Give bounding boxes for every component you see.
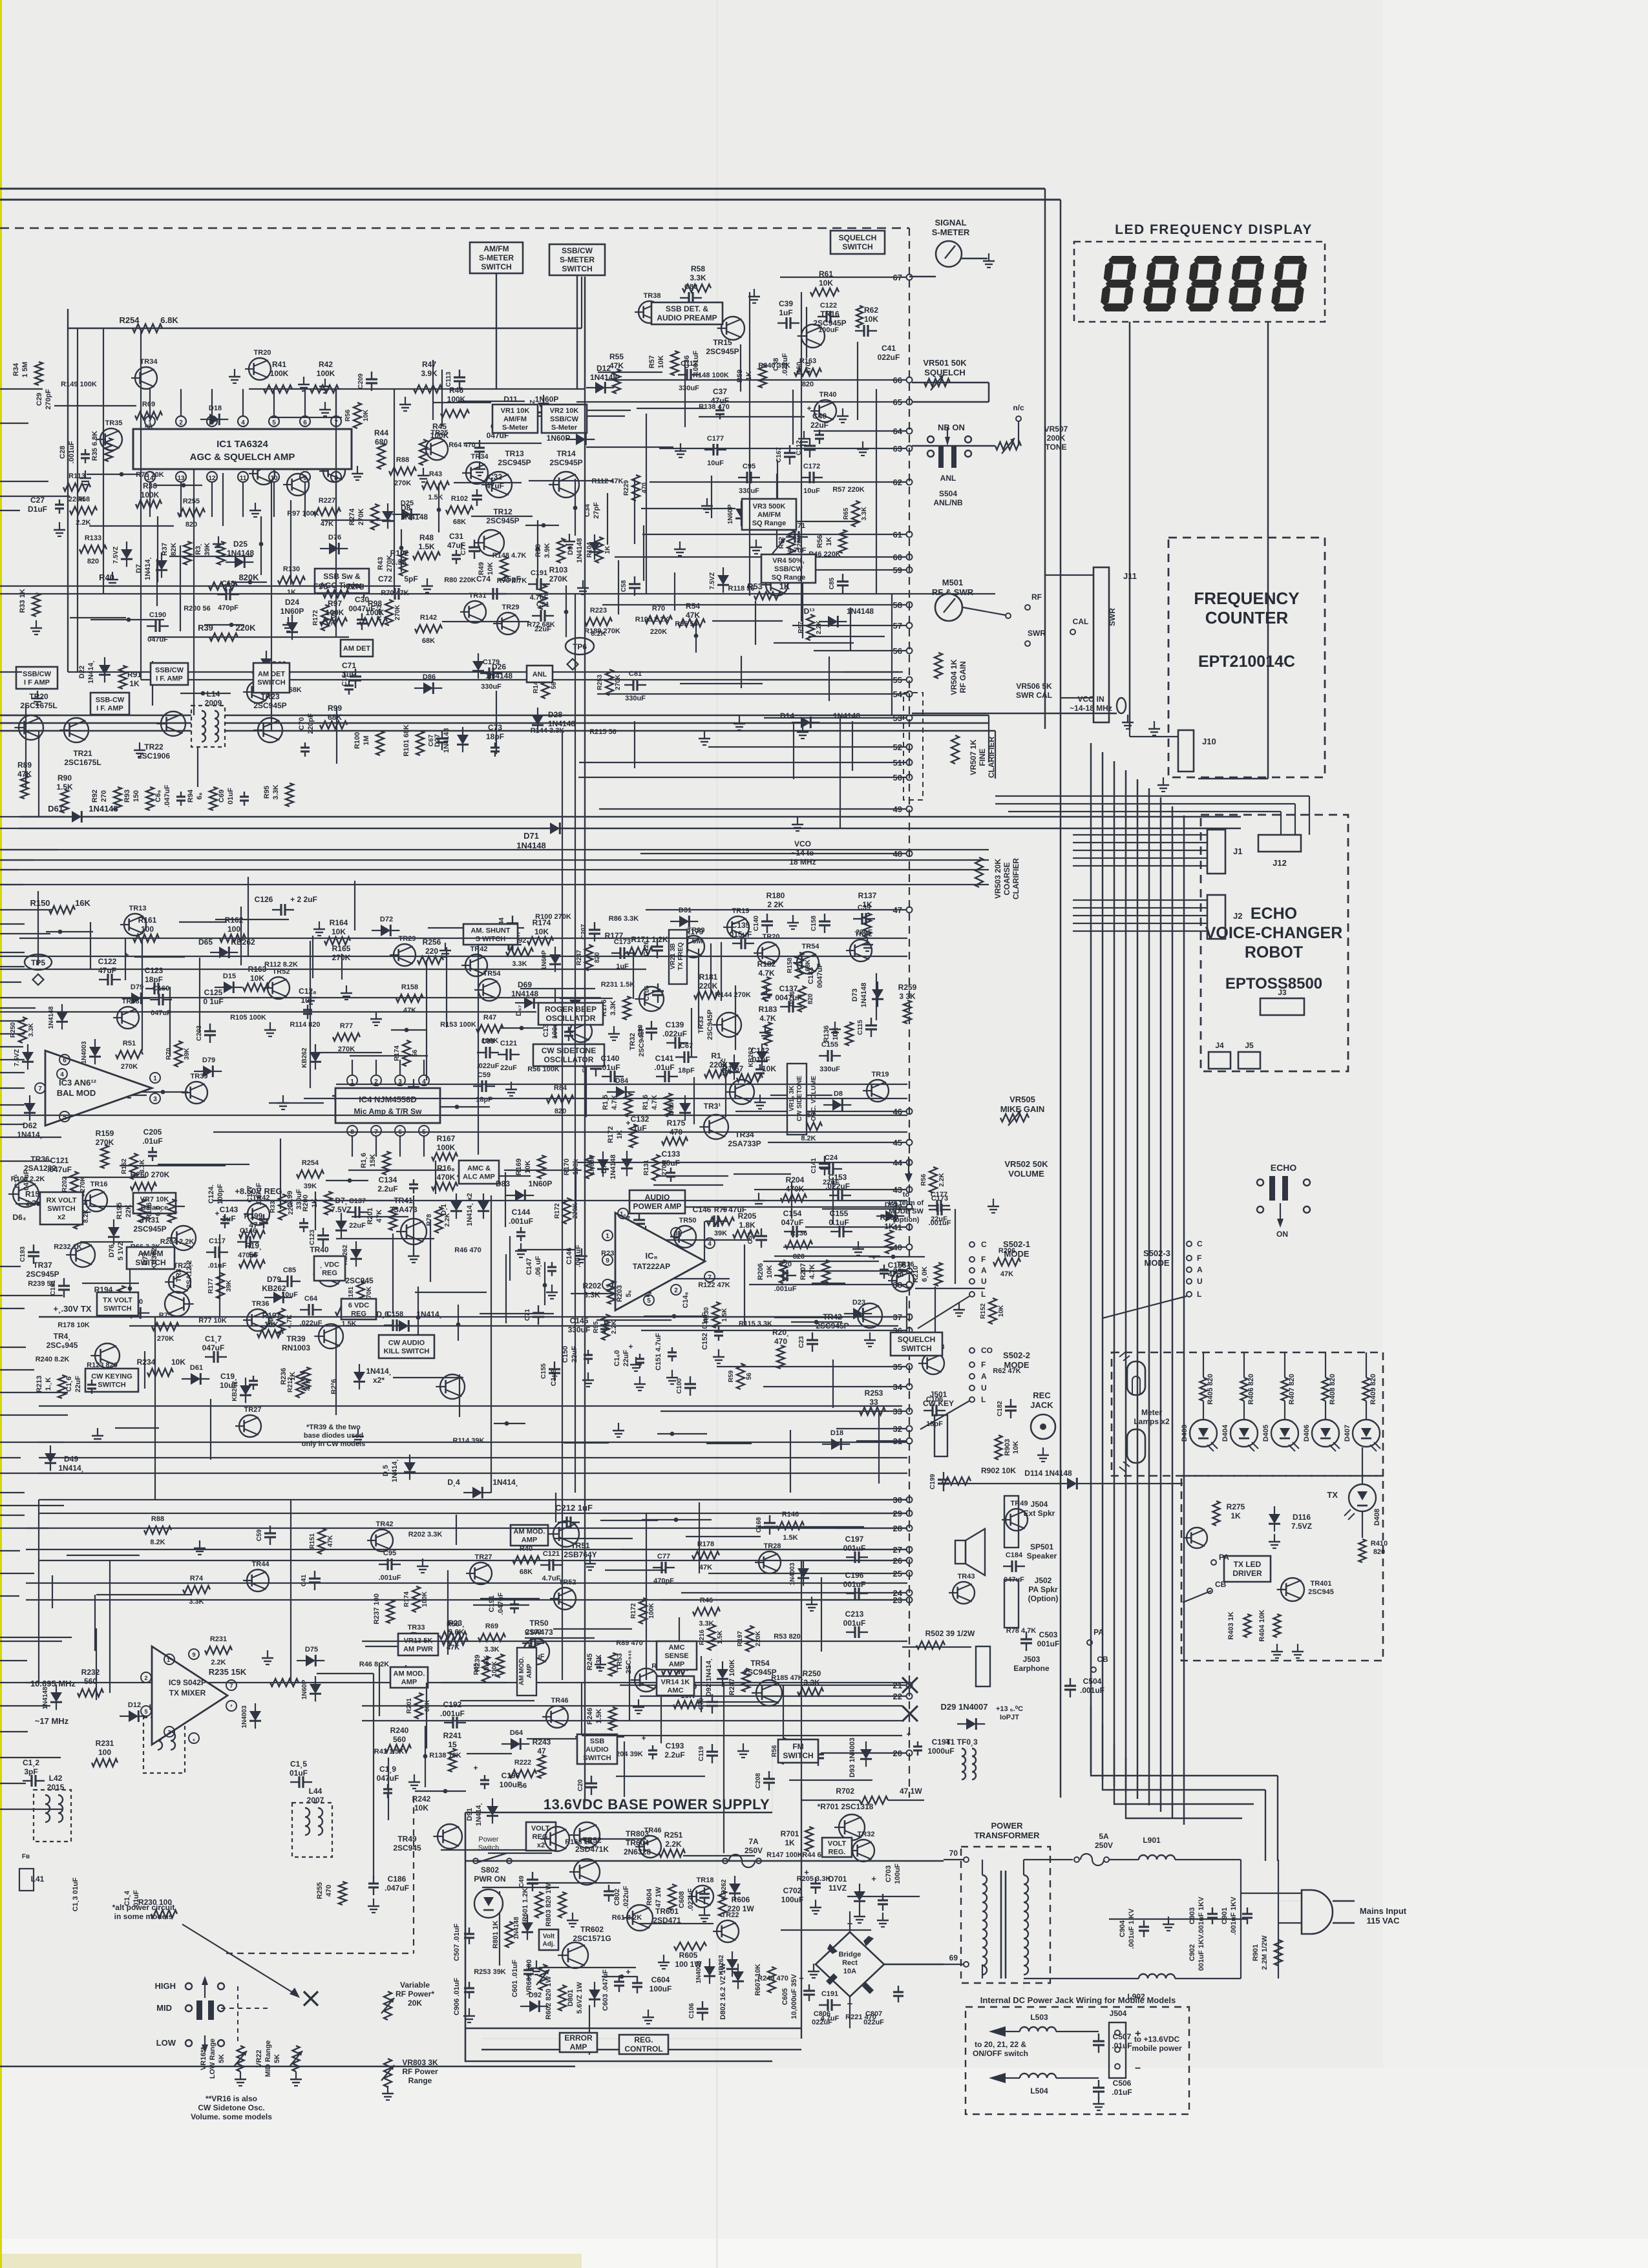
svg-text:100K: 100K (437, 1143, 456, 1152)
svg-text:3.3K: 3.3K (272, 784, 280, 799)
VR21B TX FREQ box (669, 930, 687, 984)
connector pin 22 (907, 1694, 913, 1699)
svg-text:J504: J504 (1110, 2009, 1127, 2018)
svg-text:AM/FM: AM/FM (483, 244, 509, 253)
svg-text:R41: R41 (272, 360, 286, 369)
svg-text:R172: R172 (554, 1203, 561, 1219)
connector pin 66 (907, 377, 913, 383)
svg-text:**VR16 is also: **VR16 is also (206, 2094, 257, 2103)
svg-text:C193: C193 (19, 1246, 26, 1262)
svg-text:LOW: LOW (156, 2038, 176, 2048)
svg-text:001uF: 001uF (1037, 1639, 1060, 1648)
svg-text:250V: 250V (745, 1846, 763, 1855)
svg-text:CW SIDETONE: CW SIDETONE (542, 1046, 596, 1055)
wire vertical drop from bus B (1060, 200, 1062, 1798)
AM DET SWITCH box (253, 663, 290, 693)
svg-text:TR16: TR16 (90, 1181, 108, 1188)
svg-text:22uF: 22uF (931, 1215, 947, 1223)
svg-text:T1 TF0¸3: T1 TF0¸3 (945, 1738, 978, 1747)
svg-text:C155: C155 (540, 1363, 547, 1379)
svg-text:VR4 50%,: VR4 50%, (772, 557, 805, 565)
svg-text:JACK: JACK (1030, 1400, 1053, 1410)
svg-text:10A: 10A (843, 1968, 856, 1975)
svg-text:100K: 100K (317, 369, 335, 378)
svg-text:ERROR: ERROR (564, 2033, 593, 2042)
svg-text:TR20: TR20 (29, 692, 48, 701)
svg-text:+: + (473, 1763, 478, 1772)
svg-text:70: 70 (949, 1849, 958, 1858)
svg-text:Ext Spkr: Ext Spkr (1024, 1509, 1055, 1518)
svg-text:560: 560 (393, 1735, 406, 1744)
TX LED DRIVER box (1224, 1556, 1271, 1582)
svg-text:.022uF: .022uF (687, 1888, 695, 1911)
svg-text:CW KEYING: CW KEYING (91, 1372, 132, 1380)
svg-text:x2: x2 (58, 1213, 65, 1221)
svg-text:47 1W: 47 1W (900, 1787, 922, 1796)
svg-text:100uF: 100uF (650, 1984, 672, 1993)
svg-text:C1¸9: C1¸9 (379, 1765, 396, 1774)
svg-text:D71: D71 (523, 831, 539, 841)
svg-text:J10: J10 (1202, 737, 1216, 746)
ROGER BEEP OSCILLATOR box (538, 1003, 603, 1025)
svg-text:Bridge: Bridge (839, 1951, 861, 1958)
svg-text:047uF: 047uF (151, 1009, 171, 1017)
svg-text:270K: 270K (332, 953, 351, 962)
svg-text:PWR ON: PWR ON (474, 1874, 505, 1884)
svg-text:100 1W: 100 1W (675, 1960, 702, 1969)
svg-text:LOW Range: LOW Range (209, 2039, 217, 2079)
svg-text:R251: R251 (664, 1831, 683, 1840)
svg-text:D405: D405 (1262, 1425, 1270, 1442)
TP5 marker (25, 954, 52, 970)
svg-text:15: 15 (448, 1740, 457, 1749)
wire s-meter stub (909, 276, 936, 278)
svg-text:10K: 10K (487, 562, 494, 575)
svg-text:R77: R77 (340, 1022, 353, 1030)
svg-text:TR32: TR32 (629, 1033, 637, 1051)
svg-text:EPTOSS8500: EPTOSS8500 (1225, 975, 1322, 992)
svg-text:R215 56: R215 56 (589, 728, 617, 736)
svg-text:270K: 270K (615, 674, 622, 690)
svg-text:EPT210014C: EPT210014C (1198, 653, 1295, 671)
svg-text:CO: CO (981, 1346, 993, 1355)
AM/FM SWITCH box (127, 1247, 174, 1269)
svg-text:270K: 270K (157, 1335, 174, 1343)
svg-text:R136: R136 (823, 1025, 830, 1042)
svg-text:R182: R182 (757, 960, 776, 969)
svg-text:3.3K: 3.3K (595, 1654, 603, 1669)
svg-text:C125: C125 (204, 988, 223, 997)
6VDC REG box (341, 1299, 376, 1319)
connector pin 26 (907, 1558, 913, 1564)
svg-text:C191: C191 (488, 1595, 496, 1612)
svg-text:2SC945P: 2SC945P (26, 1270, 59, 1279)
svg-text:100: 100 (141, 925, 154, 934)
svg-text:.047uF: .047uF (497, 1592, 505, 1615)
svg-text:SWITCH: SWITCH (901, 1344, 931, 1353)
svg-text:C807: C807 (865, 2010, 882, 2018)
bridge rectifier (816, 1932, 884, 1997)
wire J10 feed (1198, 778, 1268, 780)
svg-text:D407: D407 (1344, 1425, 1351, 1442)
svg-text:J5: J5 (1245, 1041, 1254, 1050)
connector pin 28 (907, 1526, 913, 1531)
svg-text:D77: D77 (142, 1252, 149, 1265)
svg-text:1000uF: 1000uF (927, 1747, 954, 1756)
svg-text:TR36: TR36 (30, 1155, 50, 1164)
svg-text:C168: C168 (755, 1517, 763, 1533)
svg-text:C207: C207 (580, 924, 587, 940)
wire s-meter box drops (496, 273, 497, 389)
svg-text:U: U (981, 1383, 987, 1392)
svg-text:Adj.: Adj. (543, 1941, 555, 1948)
svg-text:R502 39 1/2W: R502 39 1/2W (925, 1629, 975, 1638)
svg-text:CB: CB (1215, 1580, 1227, 1589)
svg-text:5₆: 5₆ (625, 1290, 633, 1297)
svg-text:C41: C41 (301, 1574, 308, 1586)
svg-text:+¸.30V TX: +¸.30V TX (54, 1304, 92, 1314)
svg-text:270K: 270K (549, 574, 568, 583)
svg-text:TR39: TR39 (286, 1334, 306, 1343)
svg-text:TR38: TR38 (122, 998, 140, 1005)
LED display digit 3 (8) (1185, 256, 1223, 311)
svg-text:6₈: 6₈ (196, 792, 204, 799)
svg-text:VR504 1K: VR504 1K (949, 659, 958, 695)
svg-text:R61: R61 (819, 269, 833, 278)
svg-text:R89: R89 (17, 761, 32, 770)
svg-text:R150: R150 (30, 898, 50, 908)
svg-text:R151: R151 (309, 1533, 316, 1549)
svg-text:TR22: TR22 (144, 742, 164, 751)
connector pin 50 (907, 775, 913, 781)
svg-text:3.3K: 3.3K (861, 507, 868, 521)
svg-text:1K: 1K (287, 589, 296, 596)
svg-text:.022uF: .022uF (662, 1029, 687, 1038)
svg-text:C28: C28 (59, 446, 67, 459)
svg-text:AMP: AMP (522, 1536, 537, 1544)
LED display digit 1 (8) (1099, 256, 1137, 311)
SQUELCH SWITCH box (830, 231, 885, 254)
AUDIO POWER AMP box (629, 1190, 685, 1213)
connector pin 36 (907, 1328, 913, 1334)
svg-text:1.5K: 1.5K (428, 494, 443, 501)
wire rails extra (0, 956, 907, 957)
svg-text:C147: C147 (525, 1258, 533, 1275)
svg-text:330uF: 330uF (481, 683, 502, 691)
svg-text:.001uF 1KV: .001uF 1KV (1198, 1896, 1205, 1935)
svg-text:R702: R702 (836, 1787, 854, 1796)
svg-text:R158: R158 (787, 958, 794, 973)
svg-text:D₆₇: D₆₇ (515, 1005, 523, 1016)
svg-text:2SD471K: 2SD471K (575, 1845, 609, 1854)
svg-text:1N414¸: 1N414¸ (58, 1464, 83, 1473)
svg-text:R58: R58 (77, 496, 90, 503)
svg-text:C71: C71 (524, 1308, 531, 1321)
svg-text:2SC945: 2SC945 (345, 1276, 374, 1285)
svg-text:RF: RF (1031, 593, 1042, 602)
svg-text:I F. AMP: I F. AMP (96, 704, 123, 712)
svg-text:R42: R42 (319, 360, 333, 369)
svg-text:+: + (124, 950, 129, 960)
svg-text:5pF: 5pF (404, 574, 417, 583)
connector pin 51 (907, 760, 913, 766)
svg-text:AM MOD.: AM MOD. (394, 1670, 425, 1677)
svg-text:VOLUME: VOLUME (1008, 1169, 1044, 1179)
svg-text:470: 470 (805, 362, 812, 374)
svg-text:9: 9 (303, 475, 307, 482)
svg-text:C14₈: C14₈ (682, 1292, 690, 1308)
wiring clutter balanced modulator section (37, 891, 39, 965)
ground VR16 VR22 (240, 2072, 241, 2079)
svg-text:560: 560 (84, 1677, 97, 1686)
8 VDC REG box (314, 1256, 345, 1281)
svg-text:R230 100: R230 100 (138, 1898, 172, 1907)
svg-text:3.3K: 3.3K (690, 273, 706, 282)
svg-text:22uF: 22uF (622, 1350, 630, 1367)
svg-text:²: ² (231, 1703, 233, 1710)
svg-text:820: 820 (802, 381, 814, 388)
svg-text:C213: C213 (845, 1610, 864, 1619)
wire PS lower rail (481, 2049, 801, 2050)
svg-text:TR54: TR54 (750, 1659, 770, 1668)
svg-text:Volt: Volt (543, 1933, 555, 1940)
wire d114 (950, 1483, 1060, 1484)
svg-text:VR507: VR507 (1044, 425, 1068, 434)
svg-text:L901: L901 (1143, 1836, 1161, 1845)
svg-text:R97: R97 (328, 599, 342, 608)
svg-text:DRIVER: DRIVER (1232, 1569, 1262, 1578)
S-meter switch box SSB/CW (549, 244, 605, 275)
wire r254 rail (68, 328, 582, 329)
svg-text:3.3K: 3.3K (28, 1023, 35, 1037)
svg-text:R69: R69 (485, 1622, 498, 1630)
connector pin 23 (907, 1597, 913, 1603)
VR1 10K AM/FM S-Meter box (492, 404, 538, 433)
svg-text:1K: 1K (884, 1222, 894, 1231)
svg-text:C199: C199 (286, 1191, 294, 1208)
svg-text:OSCILLATOR: OSCILLATOR (544, 1055, 594, 1064)
svg-text:D¹³: D¹³ (804, 607, 815, 616)
svg-text:R250: R250 (10, 1022, 17, 1038)
svg-text:11VZ: 11VZ (829, 1884, 847, 1893)
svg-text:1N60P: 1N60P (535, 395, 559, 404)
Volt Adj box (539, 1929, 558, 1950)
svg-text:2 2K: 2 2K (767, 900, 784, 909)
svg-text:1.5K: 1.5K (717, 1630, 724, 1644)
svg-text:RF GAIN: RF GAIN (958, 661, 967, 693)
connector pin 58 (907, 602, 913, 608)
svg-text:R241: R241 (443, 1731, 462, 1740)
svg-text:R253: R253 (597, 675, 604, 690)
wire bridge connections (849, 1911, 850, 1932)
transistor TR402 (1187, 1528, 1207, 1548)
svg-text:C177: C177 (931, 1191, 947, 1199)
connector J3 (1260, 998, 1304, 1015)
svg-text:4: 4 (60, 1071, 64, 1078)
CW SIDETONE OSCILLATOR box (533, 1044, 604, 1066)
svg-text:R245: R245 (586, 1654, 594, 1670)
svg-text:C64: C64 (304, 1295, 318, 1303)
svg-text:S-Meter: S-Meter (551, 424, 578, 432)
svg-text:16K: 16K (75, 898, 90, 908)
svg-text:18pF: 18pF (145, 975, 163, 984)
svg-text:C140: C140 (601, 1054, 620, 1063)
svg-text:001uF: 001uF (843, 1619, 866, 1628)
svg-text:TR33: TR33 (697, 1016, 705, 1034)
ERROR AMP box (560, 2033, 597, 2052)
meter M501 RF & SWR (935, 594, 962, 621)
svg-text:TR16: TR16 (820, 310, 840, 319)
svg-text:.047uF: .047uF (385, 1884, 409, 1893)
svg-text:C906 .01uF: C906 .01uF (453, 1978, 461, 2015)
svg-text:2.2K: 2.2K (211, 1659, 226, 1666)
svg-text:15K: 15K (369, 1154, 377, 1167)
svg-text:4.7uF: 4.7uF (788, 547, 807, 554)
svg-text:100uF: 100uF (781, 1895, 804, 1904)
svg-text:R601 1.2K: R601 1.2K (522, 1888, 529, 1922)
svg-text:270K: 270K (357, 509, 365, 525)
svg-text:C141: C141 (655, 1054, 674, 1063)
svg-text:R152: R152 (980, 1303, 987, 1319)
svg-text:R204: R204 (786, 1175, 805, 1184)
svg-text:R171 1.2K: R171 1.2K (631, 935, 668, 944)
svg-text:Speaker: Speaker (1027, 1551, 1057, 1560)
svg-text:R203: R203 (616, 1285, 624, 1302)
svg-text:220pF: 220pF (307, 713, 315, 734)
svg-text:R1¸6: R1¸6 (360, 1153, 368, 1168)
TP6 marker (565, 638, 594, 655)
svg-text:C1¸7: C1¸7 (205, 1334, 222, 1343)
svg-text:D18: D18 (830, 1429, 843, 1437)
svg-text:2SC945P: 2SC945P (486, 516, 519, 525)
connector pin 33 (907, 1409, 913, 1414)
svg-text:47K: 47K (403, 1007, 416, 1014)
svg-text:+: + (804, 1867, 809, 1877)
svg-text:C30: C30 (355, 595, 369, 604)
svg-text:C27: C27 (30, 496, 45, 505)
svg-text:R77 10K: R77 10K (198, 1317, 226, 1325)
svg-text:R231: R231 (96, 1739, 114, 1748)
svg-text:C49: C49 (518, 1875, 525, 1887)
svg-text:R53 820: R53 820 (774, 1633, 801, 1641)
svg-text:VR601 500: VR601 500 (525, 1959, 533, 1995)
svg-text:4.7K: 4.7K (651, 1095, 659, 1109)
svg-text:5.6K: 5.6K (448, 1628, 465, 1637)
wire squelch (912, 382, 989, 384)
wire bundle drop to transformer (1277, 1776, 1278, 1861)
AMC SENSE AMP box (657, 1641, 697, 1670)
svg-text:J2: J2 (1233, 911, 1242, 921)
svg-text:R275: R275 (1227, 1502, 1245, 1511)
svg-text:ON: ON (1276, 1230, 1288, 1239)
svg-text:+: + (871, 1874, 876, 1884)
connector pin 46 (907, 1109, 913, 1115)
svg-text:TR29: TR29 (502, 604, 520, 611)
svg-text:R405 820: R405 820 (1207, 1374, 1214, 1405)
svg-text:R606: R606 (732, 1895, 750, 1904)
connector pin 21 (907, 1683, 913, 1688)
svg-text:SWITCH: SWITCH (842, 242, 872, 251)
svg-text:D11: D11 (503, 395, 518, 404)
svg-text:C203: C203 (196, 1025, 203, 1041)
svg-text:MID: MID (156, 2003, 172, 2013)
svg-text:R181: R181 (699, 972, 718, 982)
connector pin 41 (907, 1224, 913, 1230)
display connector dashed line (909, 228, 910, 1798)
svg-text:1N4148: 1N4148 (548, 719, 575, 728)
svg-text:TX MIXER: TX MIXER (169, 1688, 206, 1697)
svg-text:C123: C123 (309, 1230, 316, 1245)
svg-text:2SC945: 2SC945 (1308, 1588, 1334, 1596)
svg-text:L: L (981, 1290, 986, 1299)
svg-text:2SC₉₄₅: 2SC₉₄₅ (625, 1650, 633, 1674)
svg-text:R255: R255 (316, 1882, 324, 1899)
svg-text:1N414¸: 1N414¸ (366, 1367, 391, 1376)
connector pin 35 (907, 1364, 913, 1370)
svg-text:2SB764Y: 2SB764Y (564, 1550, 597, 1559)
svg-text:TR43: TR43 (958, 1573, 975, 1580)
svg-text:D12: D12 (597, 364, 611, 373)
LED display digit 2 (8) (1142, 256, 1180, 311)
connector pin 64 (907, 428, 913, 434)
svg-text:R164: R164 (330, 918, 348, 927)
svg-text:Mains Input: Mains Input (1360, 1906, 1407, 1916)
ground VR803 (387, 2086, 388, 2094)
VR3 500K AM/FM SQ Range box (742, 499, 796, 530)
svg-text:6: 6 (303, 419, 307, 426)
svg-text:C29: C29 (36, 393, 43, 406)
VR18 CW SIDETONE OSC VOLUME box (787, 1064, 807, 1135)
svg-text:R239: R239 (474, 1655, 481, 1672)
svg-text:R158: R158 (401, 983, 418, 991)
svg-text:D61: D61 (190, 1364, 203, 1372)
SSB/CW IF AMP box 1 (16, 667, 58, 689)
svg-text:18pF: 18pF (486, 732, 504, 741)
svg-text:C209: C209 (357, 373, 364, 389)
LED D408 TX (1349, 1484, 1376, 1511)
frequency counter dashed enclosure (1168, 538, 1325, 777)
svg-text:C702: C702 (783, 1886, 802, 1895)
svg-text:220K: 220K (755, 1630, 762, 1646)
svg-text:R40: R40 (99, 572, 114, 582)
svg-text:D6₄: D6₄ (12, 1213, 26, 1222)
wiring clutter upper switch row (639, 301, 660, 323)
svg-text:FINE: FINE (978, 748, 987, 766)
LED display digit 5 (8) (1270, 256, 1308, 311)
svg-text:J4: J4 (1215, 1041, 1224, 1050)
svg-text:47K: 47K (327, 1535, 334, 1547)
wire PS top bus (465, 1860, 944, 1862)
svg-text:D79: D79 (267, 1275, 281, 1284)
svg-text:R404 10K: R404 10K (1258, 1610, 1266, 1642)
svg-text:R70: R70 (652, 605, 665, 613)
svg-text:2SC945P: 2SC945P (498, 458, 531, 467)
svg-text:100K: 100K (491, 1661, 498, 1677)
svg-text:01uF: 01uF (227, 788, 235, 804)
svg-text:C191: C191 (531, 569, 547, 577)
svg-text:10K: 10K (363, 409, 370, 421)
svg-text:TR38: TR38 (644, 292, 661, 300)
connector pin 55 (907, 677, 913, 683)
svg-text:TAT222AP: TAT222AP (633, 1262, 670, 1271)
svg-text:C24: C24 (825, 1154, 838, 1162)
wire VCO line (912, 713, 1117, 715)
svg-text:1N60P: 1N60P (547, 434, 571, 443)
svg-text:100K: 100K (366, 608, 385, 617)
svg-text:D8: D8 (834, 1090, 843, 1098)
connector pin 37 (907, 1314, 913, 1320)
svg-text:R207: R207 (799, 1263, 807, 1280)
